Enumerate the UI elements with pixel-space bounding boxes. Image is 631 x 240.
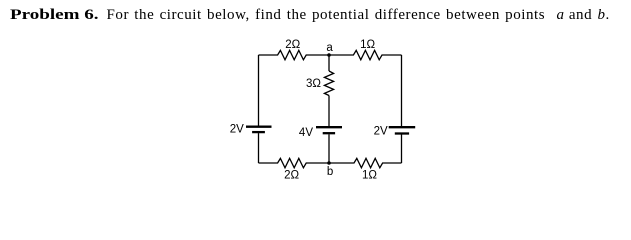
svg-text:2Ω: 2Ω <box>284 170 299 182</box>
svg-text:2Ω: 2Ω <box>285 39 300 51</box>
svg-text:a: a <box>326 42 333 54</box>
svg-text:2V: 2V <box>374 126 388 138</box>
svg-text:1Ω: 1Ω <box>362 170 377 182</box>
svg-text:b: b <box>327 166 333 178</box>
svg-text:4V: 4V <box>299 127 313 139</box>
svg-text:2V: 2V <box>230 123 244 135</box>
svg-text:1Ω: 1Ω <box>360 39 375 51</box>
svg-text:3Ω: 3Ω <box>306 78 321 90</box>
